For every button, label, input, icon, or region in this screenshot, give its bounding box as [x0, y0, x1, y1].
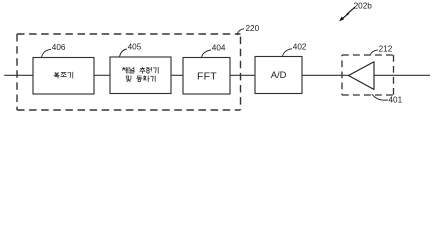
box 402 A/D converter [255, 57, 302, 94]
amplifier 401 triangle [349, 62, 375, 90]
label 406 [42, 43, 66, 57]
label 405 [120, 43, 142, 57]
svg-text:406: 406 [52, 43, 66, 52]
wire 405-404 [171, 74, 183, 76]
box 406 demodulator [33, 58, 94, 95]
label 212 [370, 45, 392, 55]
svg-text:A/D: A/D [271, 69, 287, 80]
wire 402-amp [302, 74, 349, 76]
label 402 [283, 43, 307, 57]
svg-text:402: 402 [293, 43, 307, 52]
svg-text:404: 404 [212, 44, 226, 53]
dashed block 212 (amplifier section) [342, 55, 394, 95]
box 405 channel estimator and equalizer [110, 57, 171, 94]
box 404 FFT [183, 58, 230, 95]
svg-text:202b: 202b [354, 1, 373, 10]
label 404 [202, 44, 226, 58]
svg-text:401: 401 [389, 95, 403, 104]
box 405 text line1 채널 추정기 [122, 67, 158, 73]
wire 406-405 [94, 74, 110, 76]
label 401 [372, 94, 403, 104]
box 406 text 복조기 [54, 72, 73, 78]
dashed block 220 (baseband section) [17, 34, 241, 110]
wire 404-402 [230, 74, 255, 76]
label 220 [237, 24, 260, 35]
box 405 text line2 및 등화기 [126, 76, 155, 82]
wire input left [4, 74, 33, 76]
svg-text:405: 405 [128, 43, 142, 52]
figure pointer 202b [340, 1, 373, 21]
wire amp output right [374, 74, 430, 76]
svg-text:FFT: FFT [197, 72, 217, 83]
svg-text:212: 212 [379, 45, 393, 54]
svg-text:220: 220 [246, 24, 260, 33]
